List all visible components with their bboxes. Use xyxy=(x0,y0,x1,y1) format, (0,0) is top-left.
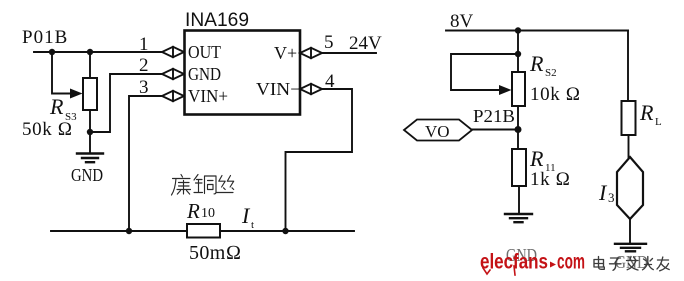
wire 8V top rail xyxy=(446,30,628,32)
svg-text:P01B: P01B xyxy=(22,27,68,48)
label R11 xyxy=(529,146,556,174)
watermark 电子发烧友 xyxy=(594,257,669,271)
ground GND3 symbol xyxy=(615,244,646,252)
junction node wiper tap RS2 xyxy=(515,51,521,57)
label RS2 xyxy=(529,51,557,79)
wire bottom shunt rail xyxy=(51,230,354,232)
resistor RL body xyxy=(622,101,636,135)
友 xyxy=(657,257,669,271)
pin 4 diamond connector xyxy=(300,84,322,94)
junction node B (P01B / RS3 top) xyxy=(87,49,93,55)
svg-text:2: 2 xyxy=(139,55,149,76)
wire RL bottom to I3 xyxy=(628,135,630,157)
wire R11 bottom to GND2 xyxy=(518,186,520,213)
svg-text:8V: 8V xyxy=(450,11,474,32)
svg-text:10k Ω: 10k Ω xyxy=(530,84,581,105)
flag VO hexagon xyxy=(404,120,472,141)
junction node A (P01B / wiper tap) xyxy=(49,49,55,55)
wiper arrow into RS3 xyxy=(70,89,83,99)
resistor RS3 body xyxy=(83,78,97,110)
svg-text:1: 1 xyxy=(139,34,149,55)
resistor R10 body (shunt) xyxy=(187,224,220,238)
发 xyxy=(627,257,639,271)
svg-text:VIN+: VIN+ xyxy=(188,86,228,106)
wire RS2 bottom to R11 top xyxy=(517,106,519,149)
junction node P21B xyxy=(515,126,522,133)
svg-text:R: R xyxy=(529,146,544,171)
watermark elecfans.com xyxy=(480,251,585,276)
svg-text:VO: VO xyxy=(425,122,450,141)
svg-text:S2: S2 xyxy=(545,67,557,79)
svg-text:P21B: P21B xyxy=(473,106,515,126)
ground GND1 symbol xyxy=(77,154,103,163)
wire RS3 bottom to pin 2 xyxy=(90,74,162,132)
svg-text:GND: GND xyxy=(71,165,103,185)
wire P01B horizontal to pin 1 xyxy=(34,51,162,53)
pin 2 diamond connector xyxy=(162,69,184,79)
电 xyxy=(594,257,604,270)
wire pin 3 to bottom rail xyxy=(129,96,162,231)
pin 3 diamond connector xyxy=(162,91,184,101)
svg-text:R: R xyxy=(49,94,64,119)
svg-text:10: 10 xyxy=(201,206,215,221)
wire RS2 wiper loop xyxy=(451,54,518,90)
junction node 8V/RS2 xyxy=(515,27,521,33)
current source I3 hexagon xyxy=(617,157,643,219)
junction node pin4/bottom xyxy=(282,228,288,234)
label It current xyxy=(241,203,254,231)
pin 5 diamond connector xyxy=(300,48,322,58)
svg-text:GND: GND xyxy=(188,64,221,84)
svg-text:3: 3 xyxy=(608,190,615,205)
resistor RS2 body xyxy=(512,72,525,106)
svg-text:VIN−: VIN− xyxy=(256,79,301,99)
resistor R11 body xyxy=(512,149,526,186)
wire RS3 top xyxy=(89,52,91,78)
svg-text:t: t xyxy=(251,219,254,231)
svg-text:50k Ω: 50k Ω xyxy=(22,119,73,140)
wire pin 4 to bottom rail xyxy=(286,89,353,231)
svg-text:R: R xyxy=(529,51,544,76)
svg-text:com: com xyxy=(557,251,585,274)
wire wiper L-shape xyxy=(52,52,71,94)
svg-text:V+: V+ xyxy=(274,43,297,63)
wire VO flag to P21B xyxy=(472,129,518,131)
pin 1 diamond connector xyxy=(162,47,184,57)
wire RS3 bottom xyxy=(89,110,91,152)
svg-text:50mΩ: 50mΩ xyxy=(189,242,242,264)
junction node pin3/bottom xyxy=(126,228,132,234)
康 xyxy=(172,175,191,196)
svg-text:24V: 24V xyxy=(349,33,382,54)
op-amp U1 INA169 box xyxy=(185,31,301,115)
wiper arrow into RS2 xyxy=(499,85,512,95)
烧 xyxy=(643,257,654,270)
丝 xyxy=(216,176,234,193)
铜 xyxy=(194,175,216,194)
label RL xyxy=(639,100,662,128)
svg-text:5: 5 xyxy=(324,32,334,53)
label RS3 xyxy=(49,94,77,123)
svg-text:R: R xyxy=(186,199,200,223)
wire RL top from 8V rail xyxy=(627,31,629,102)
子 xyxy=(610,258,622,270)
label I3 xyxy=(598,180,615,205)
svg-text:R: R xyxy=(639,100,654,125)
junction node RS3 bottom xyxy=(87,129,93,135)
svg-text:OUT: OUT xyxy=(188,42,221,62)
svg-text:INA169: INA169 xyxy=(185,10,249,31)
svg-text:3: 3 xyxy=(139,77,149,98)
label 康铜丝 (constantan wire) xyxy=(172,175,234,196)
svg-text:1k Ω: 1k Ω xyxy=(530,169,571,190)
wire I3 bottom to GND3 xyxy=(629,219,631,243)
wire pin 5 supply xyxy=(322,52,376,54)
ground GND2 symbol xyxy=(505,214,532,222)
label R10 xyxy=(186,199,215,223)
svg-text:L: L xyxy=(655,116,662,128)
wire RS2 top xyxy=(517,31,519,73)
